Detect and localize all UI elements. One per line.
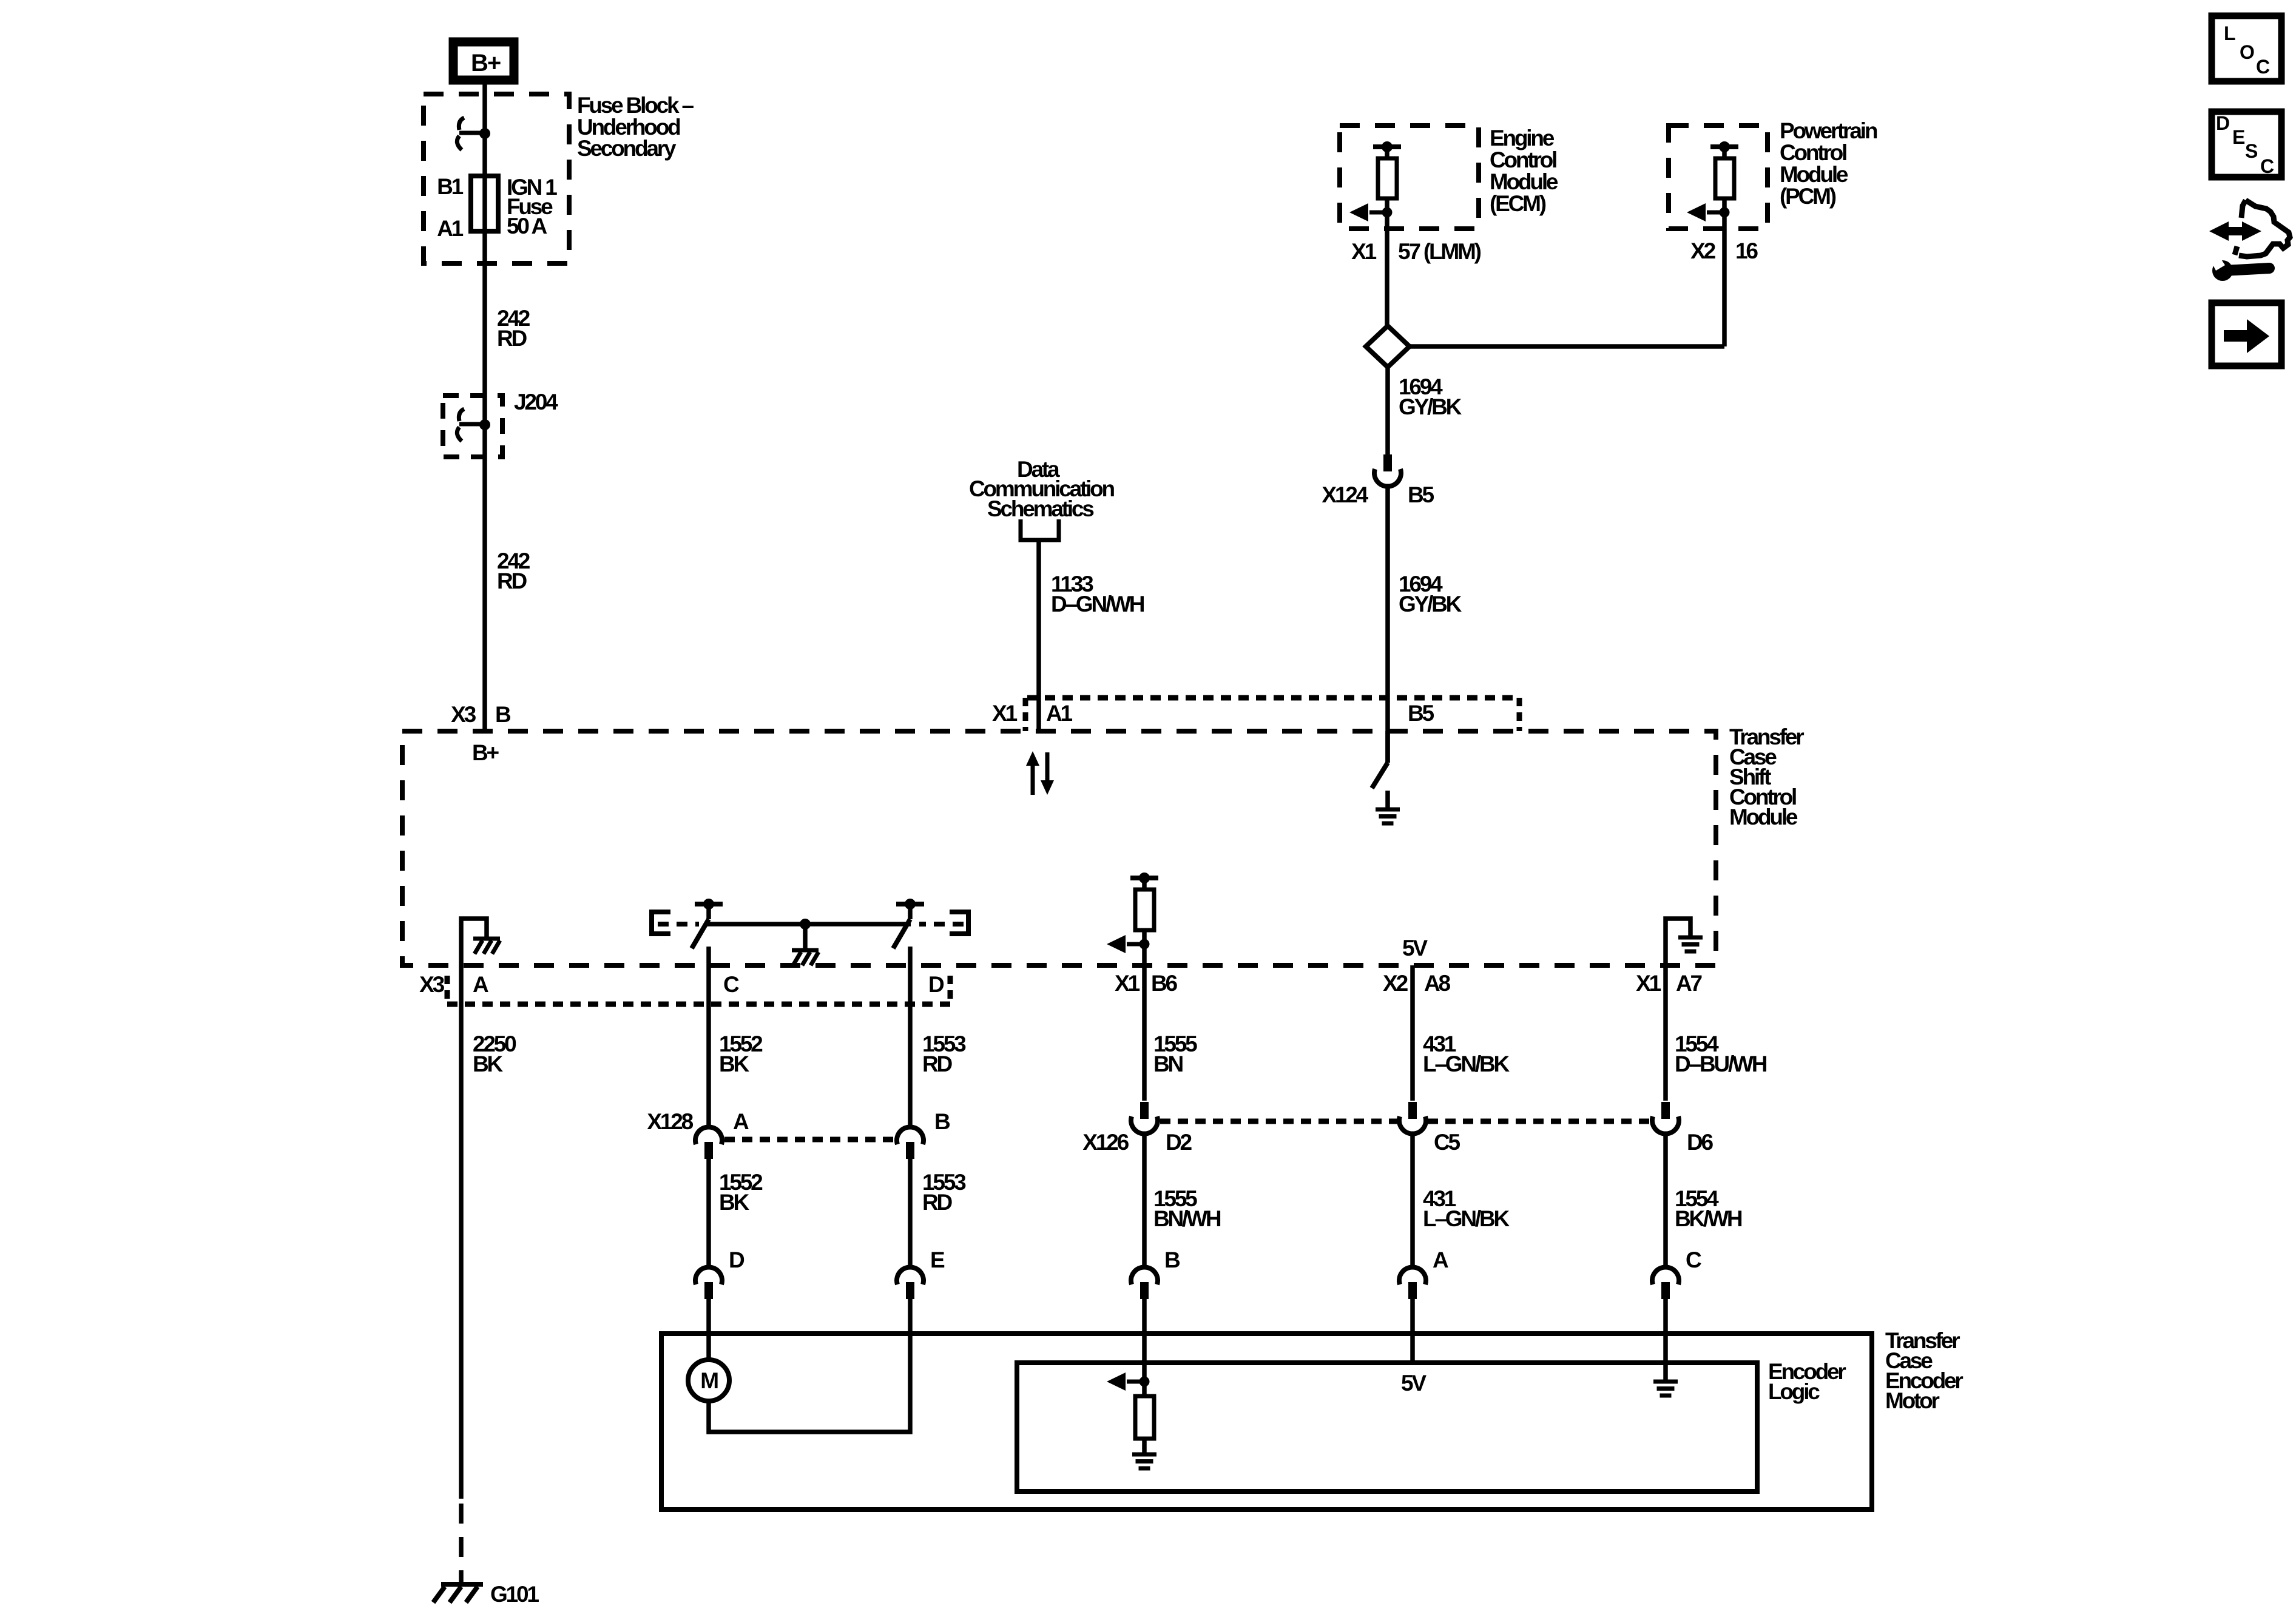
svg-text:GY/BK: GY/BK (1399, 592, 1462, 616)
wire: T-bar to resistor (B6) (1142, 878, 1147, 890)
svg-text:L–GN/BK: L–GN/BK (1423, 1052, 1510, 1076)
switch C: terminal T-bar with dot (695, 899, 723, 910)
chassis ground symbol (pin A internal) (473, 939, 500, 954)
wire: ECM pin 57 down to diamond splice (1385, 212, 1389, 327)
svg-text:L–GN/BK: L–GN/BK (1423, 1206, 1510, 1231)
signal arrow pointing left with junction dot (encoder B) (1107, 1372, 1150, 1391)
splice J204 dashed box (443, 396, 502, 457)
wire: circuit 1552 BK from switch C down to connector X128 (706, 947, 711, 1127)
svg-text:A: A (733, 1109, 749, 1134)
wire: resistor to junction (PCM) (1722, 198, 1727, 212)
connector pin E (dome) (897, 1267, 923, 1299)
resistor (pull-up) inside PCM (1715, 158, 1734, 198)
node: junction dot at fuse block bus (479, 128, 490, 139)
wire: resistor to junction (1385, 198, 1389, 212)
svg-text:Engine: Engine (1490, 126, 1555, 150)
svg-text:X128: X128 (647, 1109, 693, 1134)
switch D: stem (908, 904, 913, 919)
wire: bus center to ground (803, 924, 808, 949)
svg-text:X2: X2 (1690, 238, 1715, 263)
svg-text:C5: C5 (1434, 1130, 1460, 1155)
svg-text:B: B (1164, 1247, 1180, 1272)
connector X126 dashed link 1 (1160, 1119, 1397, 1124)
wire: 431 L-GN/BK below X126 (1410, 1135, 1415, 1267)
bidirectional serial data arrows: up arrow (1026, 751, 1039, 795)
wire: 1555 BN/WH below X126 (1142, 1135, 1147, 1267)
svg-text:B: B (495, 702, 511, 727)
connector X126 pin C5 (cup) (1399, 1102, 1426, 1134)
svg-text:X2: X2 (1383, 971, 1408, 996)
internal bus hook symbol in J204 (457, 409, 485, 441)
fuse IGN 1 50 A (471, 176, 498, 231)
svg-text:BK/WH: BK/WH (1675, 1206, 1742, 1231)
svg-text:Secondary: Secondary (577, 136, 677, 161)
connector band right dotted divider (1517, 698, 1522, 731)
wire: junction to resistor (encoder) (1142, 1382, 1147, 1396)
terminal T-bar with dot inside PCM (1710, 141, 1738, 152)
svg-text:B5: B5 (1408, 701, 1434, 726)
wire: stem from T-bar to resistor (1385, 147, 1389, 158)
svg-text:(ECM): (ECM) (1490, 191, 1546, 216)
wire: 1554 BK/WH below X126 (1663, 1135, 1668, 1267)
Fuse Block - Underhood Secondary dashed box (424, 94, 569, 263)
resistor inside module (B6) (1135, 890, 1154, 930)
svg-text:(PCM): (PCM) (1780, 184, 1836, 209)
svg-text:X126: X126 (1082, 1130, 1129, 1155)
connector pin B (dome) (1131, 1267, 1158, 1299)
svg-text:C: C (2256, 56, 2270, 78)
gang bracket left (652, 912, 670, 934)
wire: pin A7 internal ground elbow (1666, 919, 1690, 965)
svg-text:Motor: Motor (1885, 1388, 1940, 1413)
svg-text:BN/WH: BN/WH (1153, 1206, 1221, 1231)
svg-text:BK: BK (473, 1052, 504, 1076)
wire: A7 from module edge down to connector X126 (1663, 965, 1668, 1101)
wire: 1552 BK below X128 (706, 1158, 711, 1267)
svg-text:16: 16 (1735, 238, 1758, 263)
gang dashed link right (919, 922, 964, 927)
splice diamond (1366, 326, 1410, 367)
svg-text:B+: B+ (471, 50, 501, 76)
chassis ground symbol (switch bus) (792, 950, 819, 965)
svg-text:B: B (934, 1109, 950, 1134)
wire: serial data circuit 1133 D-GN/WH (1036, 540, 1041, 731)
gang bracket right (950, 912, 968, 934)
svg-text:Fuse Block –: Fuse Block – (577, 93, 694, 118)
wire: B6 junction down through module edge to connector X126 (1142, 944, 1147, 1101)
svg-text:Logic: Logic (1768, 1379, 1820, 1404)
icon double arrow (2209, 221, 2261, 241)
power symbol B+ box (453, 42, 514, 80)
svg-text:S: S (2245, 140, 2258, 162)
icon arrow box (2212, 303, 2281, 366)
ground symbol (A7 internal) (1678, 937, 1703, 951)
svg-text:Schematics: Schematics (987, 496, 1094, 521)
icon LOC box (2212, 16, 2281, 81)
icon hand outline (2235, 200, 2290, 257)
wire: PCM pin 16 down to horizontal run (1722, 212, 1727, 346)
svg-text:B1: B1 (437, 174, 464, 199)
svg-text:RD: RD (922, 1052, 953, 1076)
wire: pin A to 5V rail (1410, 1299, 1415, 1363)
connector X124 pin B5 (cup) (1374, 454, 1401, 487)
gang dashed link left (658, 922, 699, 927)
switch C: blade (692, 919, 709, 948)
Powertrain Control Module dashed box (1669, 126, 1768, 229)
connector X128 dashed link (724, 1137, 896, 1143)
svg-text:C: C (723, 972, 739, 997)
svg-text:A1: A1 (437, 216, 464, 241)
svg-text:E: E (2232, 126, 2245, 148)
resistor (pull-up) inside ECM (1378, 158, 1397, 198)
wire: B+ feed, circuit 242 RD, x=799 from B+ box to module (482, 84, 487, 731)
svg-text:A8: A8 (1424, 971, 1451, 996)
terminal T-bar with dot (B6) (1130, 873, 1158, 883)
svg-text:Module: Module (1780, 162, 1848, 187)
wire: B5 inside module down to switch (1385, 731, 1390, 763)
svg-text:X1: X1 (1636, 971, 1661, 996)
connector X128 pin A (dome) (695, 1127, 722, 1159)
svg-text:Module: Module (1729, 805, 1798, 829)
svg-text:GY/BK: GY/BK (1399, 394, 1462, 419)
signal arrow pointing left with junction dot (B6) (1107, 935, 1150, 953)
connector band left dotted divider (1023, 698, 1028, 731)
svg-text:BK: BK (719, 1052, 750, 1076)
wire: 1553 RD below X128 (908, 1158, 913, 1267)
svg-text:A: A (473, 972, 488, 997)
svg-text:E: E (930, 1247, 945, 1272)
svg-text:B+: B+ (472, 740, 499, 765)
switch D: terminal T-bar with dot (896, 899, 924, 910)
svg-text:A1: A1 (1046, 701, 1073, 726)
motor M circle (688, 1360, 729, 1401)
svg-text:A: A (1433, 1247, 1448, 1272)
Engine Control Module dashed box (1340, 126, 1479, 229)
wire: resistor to ground (encoder) (1142, 1439, 1147, 1453)
svg-text:RD: RD (497, 326, 527, 351)
internal bus hook symbol in fuse block (457, 118, 485, 150)
switch D: blade (893, 919, 910, 948)
signal arrow pointing left with junction dot (PCM) (1687, 203, 1730, 221)
connector X126 dashed link 2 (1428, 1119, 1651, 1124)
svg-text:C: C (2260, 155, 2274, 177)
connector pin D (dome) (695, 1267, 722, 1299)
ground G101 symbol (433, 1584, 483, 1602)
ground symbol (B5 internal) (1376, 809, 1400, 823)
terminal T-bar with dot inside ECM (1373, 141, 1401, 152)
svg-text:Control: Control (1490, 147, 1556, 172)
svg-text:X1: X1 (1351, 239, 1376, 264)
wire: pin B into encoder logic (1142, 1299, 1147, 1382)
svg-text:J204: J204 (514, 390, 558, 414)
svg-text:D: D (928, 972, 944, 997)
svg-text:B6: B6 (1151, 971, 1178, 996)
svg-text:O: O (2240, 41, 2255, 63)
switch blade on B5 line (1372, 763, 1388, 788)
wire: pin A internal ground elbow (461, 919, 487, 965)
Encoder Logic box (1017, 1363, 1757, 1491)
wire: pin C to ground (1663, 1299, 1668, 1380)
svg-text:C: C (1686, 1247, 1701, 1272)
svg-text:BK: BK (719, 1190, 750, 1215)
svg-text:50 A: 50 A (507, 214, 547, 238)
svg-text:D2: D2 (1166, 1130, 1192, 1155)
icon wrench (2210, 253, 2269, 281)
svg-text:D: D (729, 1247, 745, 1272)
signal arrow pointing left with junction dot (ECM) (1349, 203, 1393, 221)
connector band X3 left dotted divider (445, 976, 450, 1004)
wire: A8 from module edge down to connector X126 (1410, 965, 1415, 1101)
svg-text:X3: X3 (419, 972, 444, 997)
connector X126 pin D2 (cup) (1131, 1102, 1158, 1134)
svg-text:5V: 5V (1402, 936, 1428, 960)
ground symbol (encoder logic B) (1132, 1454, 1156, 1468)
svg-text:M: M (700, 1368, 718, 1393)
svg-text:D–GN/WH: D–GN/WH (1051, 592, 1144, 616)
switch C: stem (706, 904, 711, 919)
connector pin A (dome) (1399, 1267, 1426, 1299)
svg-text:X3: X3 (451, 702, 476, 727)
wire: circuit 1553 RD from switch D down to connector X128 (908, 947, 913, 1127)
wire: diamond down to connector X124 (1385, 367, 1390, 454)
svg-text:Powertrain: Powertrain (1780, 118, 1877, 143)
off-page bracket under Data Communication Schematics (1021, 519, 1059, 540)
svg-text:RD: RD (497, 569, 527, 593)
node: bus center dot (800, 919, 811, 930)
wire: resistor to junction (B6) (1142, 930, 1147, 944)
wire: horizontal run from diamond splice to PCM drop (1408, 344, 1724, 349)
wire: motor return to pin E (709, 1299, 910, 1432)
ground symbol (encoder logic C) (1653, 1382, 1678, 1396)
svg-text:RD: RD (922, 1190, 953, 1215)
svg-text:Module: Module (1490, 169, 1558, 194)
wire: pin D into motor (706, 1299, 711, 1361)
bidirectional serial data arrows: down arrow (1041, 752, 1054, 795)
svg-text:L: L (2224, 22, 2236, 44)
wire: stem from T-bar to resistor (PCM) (1722, 147, 1727, 158)
svg-text:D–BU/WH: D–BU/WH (1675, 1052, 1767, 1076)
svg-text:X1: X1 (992, 701, 1017, 726)
wire: circuit 2250 BK down from module (459, 965, 464, 1499)
svg-text:G101: G101 (490, 1582, 539, 1607)
wire: ganged switch bus (706, 922, 911, 927)
connector band X3 right dotted divider (948, 976, 953, 1004)
resistor inside encoder logic (1135, 1396, 1154, 1439)
Transfer Case Encoder Motor box (661, 1334, 1872, 1510)
connector band X1/A1/B5 dotted line (1027, 695, 1519, 701)
node: junction dot J204 (479, 419, 490, 430)
connector band X3 dotted line (447, 1002, 950, 1007)
svg-text:B5: B5 (1408, 482, 1434, 507)
wire: switch to ground (B5) (1385, 791, 1390, 809)
svg-text:X1: X1 (1115, 971, 1140, 996)
svg-text:X124: X124 (1322, 482, 1368, 507)
svg-text:D6: D6 (1687, 1130, 1714, 1155)
wire: X124 to module, circuit 1694 GY/BK (1385, 487, 1390, 763)
svg-text:D: D (2216, 112, 2230, 134)
icon right arrow (2224, 319, 2269, 353)
svg-text:57 (LMM): 57 (LMM) (1398, 239, 1481, 264)
svg-text:5V: 5V (1401, 1371, 1427, 1396)
svg-text:Control: Control (1780, 140, 1846, 165)
Transfer Case Shift Control Module dashed box (402, 731, 1716, 965)
connector X126 pin D6 (cup) (1652, 1102, 1679, 1134)
svg-text:BN: BN (1153, 1052, 1183, 1076)
svg-text:A7: A7 (1676, 971, 1702, 996)
connector X128 pin B (dome) (897, 1127, 923, 1159)
icon DESC box (2212, 112, 2281, 177)
connector pin C (dome) (1652, 1267, 1679, 1299)
wire: dashed continuation to G101 (459, 1504, 464, 1582)
